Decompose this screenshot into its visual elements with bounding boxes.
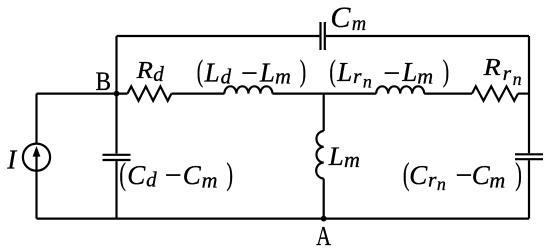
capacitor C_m plates — [321, 22, 325, 50]
wire top rail right of C_m — [326, 35, 529, 37]
capacitor (C_d-C_m) plates — [103, 155, 131, 160]
inductor L_m — [316, 131, 324, 179]
wire bottom rail — [37, 218, 530, 220]
wire middle rail junction down to L_m — [323, 94, 325, 131]
wire L_m to node A — [323, 179, 325, 219]
node B dot — [114, 91, 120, 97]
wire right vertical upper — [528, 36, 530, 153]
svg-text:B: B — [96, 67, 112, 96]
svg-text:(: ( — [403, 156, 410, 192]
wire top rail left of C_m — [117, 35, 320, 37]
svg-text:): ) — [226, 156, 233, 192]
wire capacitor (C_rn-C_m) to bottom rail — [528, 160, 530, 218]
svg-text:(: ( — [119, 156, 126, 192]
svg-text:Lm: Lm — [328, 142, 360, 172]
svg-text:(: ( — [329, 53, 335, 88]
svg-text:A: A — [316, 221, 331, 248]
capacitor (C_rn-C_m) plates — [515, 154, 543, 159]
resistor R_rn — [472, 86, 518, 100]
wire middle rail left segment (left corner to node B to R_d) — [37, 92, 128, 94]
inductor (L_d-L_m) — [224, 86, 272, 93]
svg-text:(: ( — [197, 53, 203, 88]
wire R_rn to right corner — [518, 92, 529, 94]
resistor R_d — [128, 86, 172, 100]
wire capacitor (C_d-C_m) to bottom rail — [115, 161, 117, 219]
node A dot — [321, 216, 327, 222]
current source I — [23, 144, 50, 171]
wire between R_d and (L_d-L_m) — [171, 92, 224, 94]
inductor (L_rn-L_m) — [376, 86, 424, 93]
wire B vertical upper (node B to top rail) — [115, 36, 117, 94]
svg-text:Rd: Rd — [135, 58, 164, 86]
svg-text:): ) — [515, 156, 522, 192]
wire between (L_d-L_m) and (L_rn-L_m) — [272, 92, 376, 94]
wire left vertical — [35, 94, 37, 219]
svg-text:): ) — [300, 53, 306, 88]
wire node B down to capacitor — [115, 94, 117, 154]
wire between (L_rn-L_m) and R_rn — [424, 92, 472, 94]
svg-text:): ) — [443, 53, 449, 88]
